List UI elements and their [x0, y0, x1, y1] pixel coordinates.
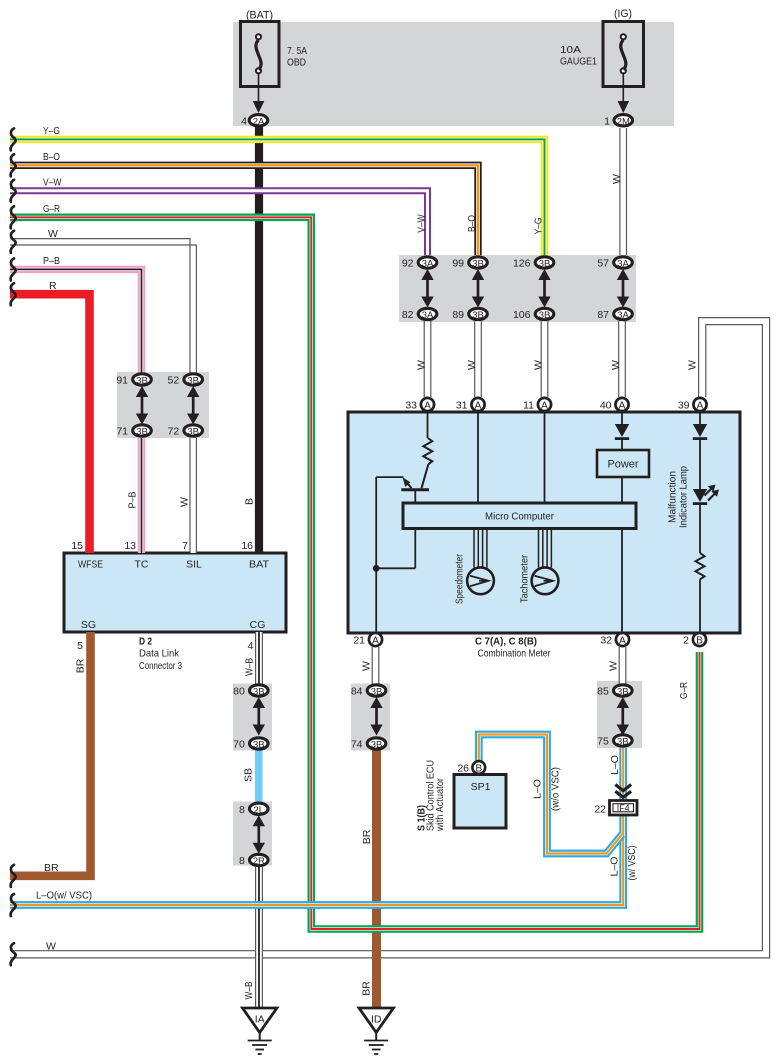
svg-text:W: W: [533, 360, 545, 370]
svg-text:W: W: [466, 360, 478, 370]
svg-text:Combination Meter: Combination Meter: [478, 648, 551, 660]
svg-text:Indicator Lamp: Indicator Lamp: [679, 466, 690, 528]
connector 57 3A: [597, 257, 632, 270]
svg-text:2M: 2M: [617, 116, 630, 127]
wire W from 2M to connector 57: [620, 128, 627, 255]
connector 8 2L: [239, 803, 268, 816]
svg-text:80: 80: [233, 686, 245, 698]
svg-text:L–O: L–O: [609, 755, 621, 775]
svg-text:Malfunction: Malfunction: [668, 471, 679, 523]
label S 1(B) Skid Control ECU with Actuator (rotated): [417, 760, 446, 832]
svg-text:SIL: SIL: [186, 559, 202, 571]
svg-text:SG: SG: [81, 619, 96, 631]
svg-text:W–B: W–B: [243, 982, 255, 1000]
LED malfunction indicator lamp: [693, 485, 719, 504]
tachometer gauge: [532, 529, 559, 595]
svg-text:A: A: [372, 636, 379, 647]
transistor Q inside meter: [376, 464, 429, 503]
svg-text:BR: BR: [44, 862, 59, 874]
svg-text:39: 39: [678, 400, 690, 412]
brace R: [11, 283, 16, 305]
svg-text:8: 8: [239, 804, 245, 816]
connector 87 3A: [597, 308, 632, 321]
svg-text:2L: 2L: [254, 805, 265, 816]
connector 80 3B: [233, 685, 268, 698]
connector 72 3B: [168, 425, 203, 438]
svg-text:CG: CG: [250, 619, 266, 631]
arrow between 57 and 87: [617, 269, 629, 308]
svg-text:2A: 2A: [253, 116, 265, 127]
wire L-O from connector 75 to IF4: [619, 748, 627, 801]
svg-text:(w/ VSC): (w/ VSC): [626, 846, 638, 881]
svg-text:99: 99: [452, 258, 464, 270]
svg-text:87: 87: [597, 309, 609, 321]
arrow between 85 and 75: [617, 697, 629, 736]
svg-text:B: B: [244, 498, 256, 505]
svg-text:3B: 3B: [617, 687, 629, 698]
svg-text:WFSE: WFSE: [78, 559, 103, 571]
meter pin 31 A: [456, 398, 485, 412]
svg-text:3A: 3A: [422, 259, 434, 270]
svg-text:8: 8: [239, 855, 245, 867]
svg-text:BAT: BAT: [249, 559, 270, 571]
svg-text:26: 26: [457, 763, 469, 775]
meter pin 2 B: [683, 633, 706, 647]
connector gray block (84/74): [351, 684, 390, 751]
wires pin31 pin11 into micro computer: [477, 412, 479, 503]
wire R thick red from left brace to D2 pin 15 WFSE: [10, 294, 90, 553]
svg-text:V–W: V–W: [43, 177, 62, 189]
svg-text:3A: 3A: [617, 259, 629, 270]
wire L-O (w/ VSC) from IF4 down to left brace: [10, 814, 623, 905]
connector 4 2A: [241, 115, 268, 128]
SP1 pin 26 B: [457, 761, 485, 774]
arrow between 99 and 89: [472, 269, 484, 308]
svg-text:IA: IA: [255, 1014, 265, 1026]
wire V-W from left brace to connector 92: [10, 191, 428, 255]
svg-text:Data Link: Data Link: [139, 648, 180, 660]
wire Y-G from left brace to connector 126: [10, 139, 545, 255]
ground ID: [359, 1008, 393, 1054]
svg-text:40: 40: [600, 400, 612, 412]
wire W from connector 82 to meter pin 33: [424, 321, 431, 397]
svg-text:D 2: D 2: [139, 636, 152, 648]
svg-text:3B: 3B: [472, 259, 484, 270]
svg-text:2: 2: [683, 635, 689, 647]
svg-text:Speedometer: Speedometer: [454, 554, 466, 604]
svg-text:Micro Computer: Micro Computer: [485, 511, 554, 523]
brace G-R: [11, 206, 16, 228]
connector 70 3B: [233, 738, 268, 751]
svg-text:7. 5A: 7. 5A: [287, 45, 307, 57]
svg-text:4: 4: [241, 116, 247, 128]
svg-text:11: 11: [523, 400, 534, 412]
svg-text:2R: 2R: [253, 856, 265, 867]
svg-text:(BAT): (BAT): [246, 10, 273, 22]
wire W from meter pin 21 to connector 84: [372, 647, 379, 684]
meter pin 32 A: [600, 633, 629, 647]
svg-text:with Actuator: with Actuator: [435, 777, 446, 832]
svg-text:72: 72: [168, 426, 180, 438]
connector 22 IF4: [594, 801, 637, 816]
svg-text:3B: 3B: [539, 259, 551, 270]
svg-text:Y–G: Y–G: [533, 218, 545, 235]
connector 89 3B: [452, 308, 487, 321]
arrow between 52 and 72: [187, 386, 199, 425]
arrow between 126 and 106: [538, 269, 550, 308]
svg-text:3B: 3B: [187, 376, 199, 387]
connector 85 3B: [597, 685, 632, 698]
svg-text:52: 52: [168, 375, 180, 387]
svg-text:82: 82: [402, 309, 414, 321]
svg-text:A: A: [619, 636, 626, 647]
svg-text:BR: BR: [75, 658, 87, 673]
svg-text:3B: 3B: [253, 687, 265, 698]
svg-text:22: 22: [594, 804, 606, 816]
wire SB from connector 70 to connector 2L: [255, 750, 263, 802]
arrow between 84 and 74: [370, 697, 382, 736]
svg-text:L–O: L–O: [609, 857, 621, 877]
svg-text:13: 13: [124, 540, 136, 552]
svg-text:89: 89: [452, 309, 464, 321]
svg-text:3B: 3B: [472, 310, 484, 321]
connector 92 3A: [402, 257, 437, 270]
svg-text:A: A: [619, 401, 626, 412]
svg-text:W: W: [179, 497, 191, 507]
svg-text:3B: 3B: [539, 310, 551, 321]
wire from emitter to pin 21 with junction: [373, 477, 415, 632]
connector 99 3B: [452, 257, 487, 270]
svg-text:OBD: OBD: [287, 57, 306, 69]
connector 52 3B: [168, 374, 203, 387]
resistor inside meter (pin 33): [423, 412, 432, 464]
brace Y-G: [11, 128, 16, 150]
svg-text:P–B: P–B: [127, 492, 139, 509]
svg-text:3B: 3B: [617, 737, 629, 748]
svg-text:1: 1: [604, 116, 610, 128]
svg-text:7: 7: [182, 540, 188, 552]
svg-text:3A: 3A: [617, 310, 629, 321]
svg-text:SP1: SP1: [471, 781, 491, 793]
meter pin 40 A: [600, 398, 629, 412]
svg-text:B–O: B–O: [466, 215, 478, 232]
svg-text:P–B: P–B: [43, 255, 60, 267]
wire W from connector 89 to meter pin 31: [475, 321, 482, 397]
wire W-B from D2 pin CG to connector 80: [256, 632, 263, 684]
svg-text:3B: 3B: [136, 376, 148, 387]
svg-text:W: W: [611, 174, 623, 184]
svg-text:A: A: [475, 401, 482, 412]
svg-text:4: 4: [248, 640, 254, 652]
svg-text:84: 84: [351, 686, 363, 698]
ground IA: [243, 1008, 277, 1054]
arrow between 2L and 2R: [253, 815, 265, 854]
fuse 7.5A OBD (BAT): [241, 10, 308, 89]
svg-text:106: 106: [513, 309, 531, 321]
brace W: [11, 231, 16, 253]
svg-text:92: 92: [402, 258, 414, 270]
svg-text:(IG): (IG): [614, 8, 632, 20]
chevron arrows into IF4: [615, 785, 631, 798]
arrow between 80 and 70: [253, 697, 265, 736]
meter pin 21 A: [353, 633, 382, 647]
svg-text:B: B: [696, 636, 703, 647]
connector 106 3B: [513, 308, 554, 321]
wire W-B from connector 2R to ground IA: [256, 867, 263, 1008]
svg-text:31: 31: [456, 400, 468, 412]
combination meter box C7(A) C8(B): [348, 412, 740, 633]
diode above power: [621, 412, 623, 424]
wire B-O from left brace to connector 99: [10, 165, 478, 255]
svg-text:ID: ID: [371, 1014, 382, 1026]
svg-text:(w/o VSC): (w/o VSC): [550, 767, 562, 811]
svg-text:3B: 3B: [187, 427, 199, 438]
speedometer gauge: [467, 529, 494, 595]
svg-text:126: 126: [513, 258, 531, 270]
brace BR bottom: [11, 865, 16, 887]
svg-text:W–B: W–B: [244, 658, 256, 676]
svg-text:C 7(A), C 8(B): C 7(A), C 8(B): [475, 636, 537, 648]
svg-text:W: W: [687, 360, 699, 370]
connector 8 2R: [239, 854, 268, 867]
wire W loop from pin 39 up over right edge to bottom-left brace: [10, 318, 770, 958]
svg-text:3B: 3B: [136, 427, 148, 438]
svg-text:Y–G: Y–G: [43, 125, 60, 137]
svg-text:A: A: [541, 401, 548, 412]
connector 82 3A: [402, 308, 437, 321]
svg-text:75: 75: [597, 736, 609, 748]
meter pin 39 A: [678, 398, 707, 412]
svg-text:71: 71: [116, 426, 128, 438]
wire P-B from left brace to connector 91 and from 71 to D2 pin 13 TC: [10, 269, 142, 553]
brace L-O bottom: [11, 894, 16, 916]
meter pin 11 A: [523, 398, 551, 412]
svg-text:W: W: [48, 228, 58, 240]
wire BR from D2 pin SG down and left to brace: [10, 632, 91, 876]
junction connector gray band (middle row 92/99/126/57): [399, 255, 636, 322]
wire W from connector 87 to meter pin 40: [619, 321, 626, 397]
micro computer box: [403, 503, 636, 529]
svg-text:Power: Power: [608, 459, 639, 471]
svg-text:Tachometer: Tachometer: [519, 555, 531, 603]
svg-text:21: 21: [353, 635, 365, 647]
wire BR from connector 74 to ground ID: [372, 750, 381, 1008]
brace B-O: [11, 154, 16, 176]
connector gray block (80/70): [233, 684, 272, 751]
svg-text:A: A: [697, 401, 704, 412]
wire G-R from left brace down right and up to meter pin 2: [10, 217, 700, 929]
svg-text:W: W: [361, 661, 373, 671]
svg-text:32: 32: [600, 635, 612, 647]
resistor below LED: [699, 504, 701, 553]
svg-text:W: W: [416, 360, 428, 370]
svg-text:G–R: G–R: [43, 203, 60, 215]
connector gray block (2L/2R): [233, 802, 272, 866]
wire L-O (w/o VSC) from SP1 pin B to IF4 line: [479, 735, 622, 854]
svg-text:B: B: [475, 764, 482, 775]
svg-text:3B: 3B: [371, 687, 383, 698]
wire W from connector 106 to meter pin 11: [541, 321, 548, 397]
svg-text:W: W: [46, 941, 56, 953]
svg-text:57: 57: [597, 258, 609, 270]
svg-text:16: 16: [241, 540, 253, 552]
svg-text:BR: BR: [361, 829, 373, 844]
connector 74 3B: [351, 738, 386, 751]
svg-text:L–O(w/ VSC): L–O(w/ VSC): [36, 890, 92, 902]
svg-text:W: W: [610, 360, 622, 370]
wire W from left brace down to connector 52 and from 72 to D2 pin 7 SIL: [10, 239, 196, 553]
arrow into connector 2M: [618, 87, 630, 113]
power box: [597, 450, 649, 477]
svg-text:85: 85: [597, 686, 609, 698]
arrow into connector 2A: [253, 87, 265, 113]
svg-text:V–W: V–W: [416, 214, 428, 233]
svg-text:A: A: [424, 401, 431, 412]
svg-text:B–O: B–O: [43, 151, 60, 163]
svg-text:BR: BR: [361, 981, 373, 996]
brace V-W: [11, 180, 16, 202]
brace W bottom: [11, 943, 16, 965]
junction connector gray block (91/52/71/72): [117, 372, 209, 438]
connector 126 3B: [513, 257, 554, 270]
connector gray block (85/75): [597, 681, 642, 748]
connector 1 2M: [604, 115, 632, 128]
svg-text:TC: TC: [135, 559, 149, 571]
svg-text:70: 70: [233, 739, 245, 751]
connector 91 3B: [116, 374, 151, 387]
data link connector 3 box D2: [64, 553, 286, 632]
svg-text:91: 91: [116, 375, 128, 387]
meter pin 33 A: [405, 398, 434, 412]
diode at pin 39: [699, 412, 701, 424]
brace P-B: [11, 258, 16, 280]
connector 71 3B: [116, 425, 151, 438]
svg-text:33: 33: [405, 400, 417, 412]
arrow between 91 and 71: [136, 386, 148, 425]
svg-text:L–O: L–O: [532, 779, 544, 799]
svg-text:GAUGE1: GAUGE1: [560, 56, 597, 68]
svg-text:15: 15: [71, 540, 83, 552]
fuse 10A GAUGE1 (IG): [560, 8, 644, 88]
svg-text:Connector 3: Connector 3: [139, 660, 182, 672]
svg-text:5: 5: [77, 640, 83, 652]
wire W from meter pin 32 to connector 85: [619, 647, 626, 684]
arrow between 92 and 82: [421, 269, 433, 308]
skid control ECU box S1(B) SP1: [454, 775, 506, 829]
svg-text:10A: 10A: [560, 44, 581, 56]
svg-text:R: R: [49, 280, 57, 292]
svg-text:3A: 3A: [422, 310, 434, 321]
svg-text:IF4: IF4: [617, 803, 630, 813]
svg-text:3B: 3B: [253, 740, 265, 751]
fuse block gray band (top): [233, 22, 674, 126]
svg-text:74: 74: [351, 739, 363, 751]
connector 84 3B: [351, 685, 386, 698]
svg-text:W: W: [608, 661, 620, 671]
svg-text:G–R: G–R: [678, 682, 690, 699]
svg-text:3B: 3B: [371, 740, 383, 751]
svg-text:SB: SB: [243, 768, 255, 782]
connector 75 3B: [597, 735, 632, 748]
wire B thick black from connector 2A to D2 pin 16 BAT: [255, 127, 263, 553]
